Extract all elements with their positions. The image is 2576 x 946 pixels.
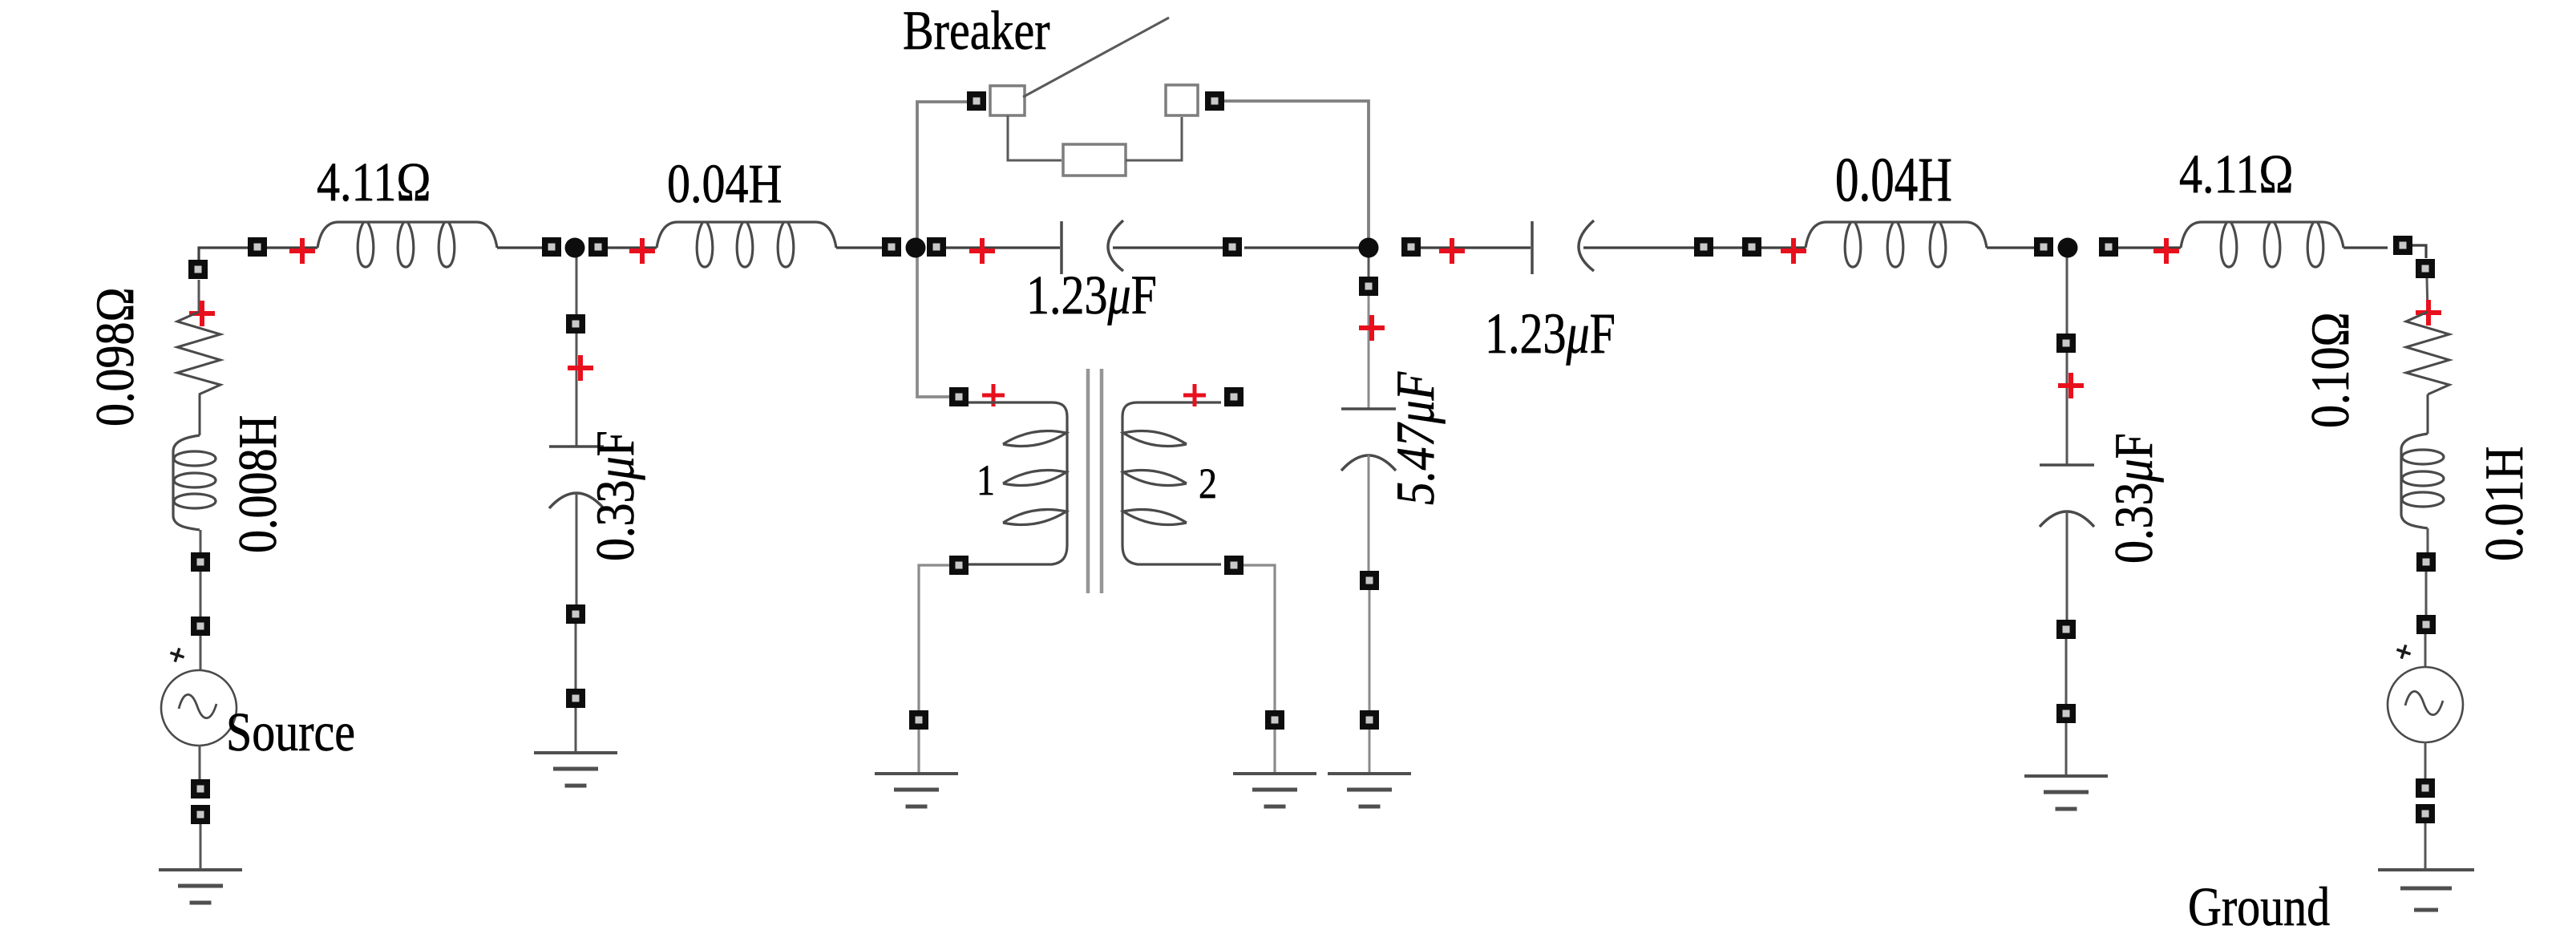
shunt pad 2 (566, 604, 585, 624)
red polarity mark left of 0.04H right coil (1781, 238, 1806, 264)
transformer secondary top pad (1224, 387, 1244, 406)
svg-text:0.33μF: 0.33μF (2104, 433, 2164, 564)
wire capacitor C1 to mid pad (1113, 246, 1235, 249)
wire capacitor to pad (1368, 455, 1370, 580)
shunt pad right 3 (2056, 704, 2076, 723)
capacitor C1 1.23uF (1062, 220, 1123, 274)
transformer primary winding (969, 402, 1067, 564)
wire inductor to pads (200, 530, 202, 562)
label 4.11ohm right (2179, 144, 2293, 205)
wire between shunt pads (575, 624, 577, 698)
wire between shunt pads right (2065, 639, 2068, 714)
label Source (226, 701, 355, 763)
wire secondary bottom to ground (1244, 565, 1275, 711)
inductor 0.04H right coil (1806, 222, 1987, 267)
pad 5.47uF mid (1360, 571, 1379, 590)
svg-text:1.23μF: 1.23μF (1026, 265, 1157, 326)
wire node C to red mark (1421, 246, 1471, 249)
right branch pad 2 (2416, 615, 2436, 634)
breaker right pad (1205, 91, 1224, 111)
pad pair on bus (1694, 237, 1761, 257)
wire primary bottom to ground (919, 565, 949, 711)
wire pad to source (200, 636, 202, 671)
left branch pad 3 (191, 779, 210, 798)
label 1 primary (977, 455, 995, 503)
wire resistor to inductor right (2427, 394, 2429, 434)
shunt pad right (2056, 334, 2076, 353)
svg-text:0.01H: 0.01H (2474, 447, 2534, 561)
left branch pad 2 (191, 617, 210, 636)
capacitor C2 1.23uF (1532, 220, 1594, 274)
ground 5.47uF branch (1328, 774, 1411, 807)
wire pad to ground (917, 730, 920, 774)
svg-text:Source: Source (226, 701, 355, 763)
wire inductor to pads right (2427, 528, 2429, 562)
wire pad to capacitor right (2066, 353, 2068, 465)
ground transformer primary (875, 774, 958, 807)
wire pad to source right (2424, 634, 2427, 668)
wire breaker to node C (1224, 101, 1369, 248)
node B pads and junction dot (882, 237, 946, 258)
transformer secondary winding (1122, 402, 1221, 564)
node C junction dot and pad (1359, 237, 1421, 258)
wire red mark to capacitor C1 (1002, 246, 1060, 249)
wire corner pad down to red mark (2427, 278, 2428, 313)
wire pads to ground right (2424, 823, 2427, 870)
right branch pad 4 (2416, 804, 2435, 823)
wire bus junction up to breaker (917, 102, 967, 248)
red polarity mark left of capacitor C2 (1439, 238, 1465, 264)
right branch pad 3 (2416, 778, 2435, 798)
inductor 0.01H (2401, 434, 2444, 528)
wire coil to node A (497, 246, 553, 249)
svg-text:0.04H: 0.04H (667, 153, 782, 215)
label 0.04H right (1835, 145, 1952, 215)
label 5.47uF (1385, 371, 1446, 505)
red polarity mark secondary (1183, 384, 1206, 406)
svg-text:0.10Ω: 0.10Ω (2300, 312, 2360, 428)
left branch pad below corner (188, 260, 208, 279)
label 0.098ohm (85, 287, 145, 427)
transformer core (1088, 369, 1102, 593)
label 0.33uF right (2104, 433, 2164, 564)
breaker bypass loop right (1126, 117, 1182, 160)
pad 5.47uF low (1360, 710, 1379, 730)
breaker arm diagonal (1023, 18, 1169, 97)
left branch pad 1 (191, 552, 210, 572)
shunt pad right 2 (2056, 620, 2076, 639)
wire pad to capacitor 0.33uF left (576, 334, 578, 447)
wire coil to node D (1987, 246, 2045, 249)
ground 0.33uF right branch (2024, 776, 2108, 809)
wire between pads 5.47 (1369, 590, 1371, 720)
wire node A down to pad (576, 248, 578, 324)
wire pads to ground (200, 824, 202, 870)
capacitor 0.33uF right (2040, 465, 2094, 527)
wire capacitor down to pad right (2066, 511, 2068, 629)
node A pads and junction dot (542, 237, 608, 258)
svg-text:Breaker: Breaker (903, 0, 1050, 61)
right branch pad 1 (2416, 552, 2436, 572)
red polarity mark left of 4.11ohm right coil (2153, 238, 2179, 264)
svg-text:0.04H: 0.04H (1835, 145, 1952, 215)
wire node B down to transformer primary (917, 248, 949, 397)
wire pad to ground right (2065, 723, 2068, 776)
node D pads and junction dot (2034, 237, 2118, 258)
wire node A to red mark (608, 246, 657, 249)
svg-text:5.47μF: 5.47μF (1385, 371, 1446, 505)
red polarity mark right resistor (2416, 300, 2441, 325)
ground transformer secondary (1233, 774, 1316, 807)
capacitor 5.47uF (1341, 409, 1396, 471)
svg-text:0.098Ω: 0.098Ω (85, 287, 145, 427)
inductor 0.04H left coil (657, 222, 836, 267)
inductor 4.11ohm right coil (2181, 222, 2343, 267)
wire node C down to pad (1368, 248, 1370, 286)
red polarity mark 0.33uF right (2058, 373, 2084, 398)
red polarity mark left of 0.04H coil (629, 238, 655, 264)
transformer primary top pad (949, 387, 969, 406)
label Ground (2188, 876, 2330, 938)
wire source to pads (199, 745, 201, 789)
secondary ground pad (1265, 710, 1284, 730)
red polarity mark left resistor (189, 301, 215, 326)
corner pad lower (2416, 259, 2435, 278)
wire red mark to capacitor C2 (1471, 246, 1531, 249)
red polarity mark 5.47uF (1359, 315, 1385, 341)
inductor 0.008H (173, 435, 216, 530)
svg-text:0.33μF: 0.33μF (585, 431, 645, 561)
svg-text:0.008H: 0.008H (228, 415, 288, 553)
label 0.01H (2474, 447, 2534, 561)
svg-text:4.11Ω: 4.11Ω (317, 152, 431, 213)
label 1.23uF for C1 (1026, 265, 1157, 326)
wire node D down to pad (2066, 248, 2068, 343)
label 2 secondary (1199, 459, 1217, 507)
node pad left bus (248, 237, 267, 257)
pad 5.47uF branch (1359, 277, 1378, 296)
wire between pads (200, 572, 202, 626)
svg-text:1: 1 (977, 455, 995, 503)
label 4.11ohm left (317, 152, 431, 213)
transformer primary bottom pad (949, 556, 969, 575)
wire pad to ground secondary (1273, 730, 1276, 774)
breaker right contact box (1166, 85, 1198, 115)
wire left corner to first pad (199, 248, 317, 269)
wire node D to red mark (2118, 246, 2181, 249)
wire to ground 5.47 (1369, 730, 1371, 774)
inductor 4.11ohm left coil (317, 222, 497, 267)
wire mid pad to node C (1244, 246, 1369, 249)
wire between pads right branch (2425, 572, 2428, 625)
svg-text:2: 2 (1199, 459, 1217, 507)
wire node B to red mark (946, 246, 1002, 249)
wire resistor to inductor (199, 394, 201, 435)
mid-line pad (1223, 237, 1242, 257)
wire source to pads right (2424, 742, 2427, 788)
AC source right (2388, 643, 2463, 742)
breaker bypass loop left (1008, 115, 1062, 160)
shunt pad (566, 314, 585, 334)
red polarity mark left of capacitor C1 (969, 238, 995, 264)
wire coil to node B (836, 246, 893, 249)
transformer secondary bottom pad (1224, 556, 1244, 575)
wire pad to capacitor 5.47uF (1368, 296, 1370, 409)
resistor 0.10ohm (2406, 312, 2449, 394)
wire pad to resistor (198, 280, 200, 313)
svg-text:1.23μF: 1.23μF (1485, 302, 1616, 366)
capacitor 0.33uF left (549, 447, 604, 508)
red polarity mark 0.33uF left (568, 355, 593, 381)
wire pad to ground (575, 708, 577, 753)
wire pad pair to red mark (1761, 246, 1806, 249)
wire capacitor C2 to pad pair (1583, 246, 1705, 249)
label 0.008H (228, 415, 288, 553)
label 0.33uF left (585, 431, 645, 561)
breaker left contact box (990, 86, 1025, 115)
ground right source (2378, 870, 2474, 910)
label 0.04H left (667, 153, 782, 215)
red polarity mark primary (982, 384, 1005, 406)
red polarity mark left of 4.11ohm coil (289, 238, 315, 264)
ground 0.33uF left branch (534, 753, 617, 786)
primary ground pad (909, 710, 928, 730)
wire capacitor down to pad (576, 493, 578, 614)
svg-text:Ground: Ground (2188, 876, 2330, 938)
resistor 0.098ohm (177, 312, 220, 394)
label Breaker (903, 0, 1050, 61)
breaker left pad (967, 91, 986, 111)
wire coil to right corner pads (2343, 245, 2426, 258)
svg-text:4.11Ω: 4.11Ω (2179, 144, 2293, 205)
breaker resistor box (1063, 144, 1126, 176)
corner pad upper (2393, 236, 2412, 255)
left branch pad 4 (191, 805, 210, 824)
ground left source (159, 870, 242, 903)
label 0.10ohm (2300, 312, 2360, 428)
AC source Source (161, 646, 237, 746)
label 1.23uF for C2 (1485, 302, 1616, 366)
shunt pad 3 (566, 689, 585, 708)
